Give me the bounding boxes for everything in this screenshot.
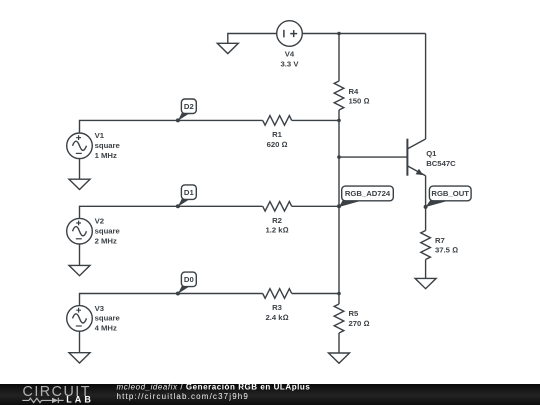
svg-text:D2: D2 [184,102,194,111]
svg-text:R3: R3 [272,303,282,312]
svg-text:square: square [95,141,121,150]
svg-text:37.5 Ω: 37.5 Ω [435,246,458,255]
wire (top rail down to R4) [338,34,340,82]
svg-text:Q1: Q1 [426,149,437,158]
svg-text:V2: V2 [95,217,104,226]
node RGB_AD724 (flag on bus) [337,186,393,208]
wire (V2 to ground) [79,244,81,265]
node junction (base tap) [337,155,341,159]
ground (top left, for V4) [217,43,238,53]
svg-text:http://circuitlab.com/c37j9h9: http://circuitlab.com/c37j9h9 [117,392,250,401]
svg-text:270 Ω: 270 Ω [349,319,370,328]
node junction (R3 row joins bus) [337,292,341,296]
node junction (R2 row joins bus) [337,205,341,209]
resistor R3 [263,289,292,299]
wire (R5 to ground) [338,333,340,353]
voltage source V4 [277,21,303,47]
svg-text:V3: V3 [95,304,104,313]
ground (below V2) [69,265,90,275]
node D0 (flag on row 3) [176,272,196,295]
footer bar [0,384,540,405]
wire (vertical bus x=339) [338,120,340,304]
svg-text:BC547C: BC547C [426,159,456,168]
svg-text:V1: V1 [95,131,105,140]
node RGB_OUT (flag on emitter wire) [424,186,472,209]
svg-text:2.4 kΩ: 2.4 kΩ [265,313,288,322]
wire (R7 to ground) [425,260,427,279]
wire (emitter down to R7) [425,176,427,231]
voltage source V2 [67,218,93,244]
voltage source V3 [67,306,93,332]
ground (below V1) [69,179,90,189]
svg-text:2 MHz: 2 MHz [95,236,117,245]
svg-text:D0: D0 [184,275,194,284]
resistor R4 [334,81,344,110]
svg-text:RGB_OUT: RGB_OUT [431,189,469,198]
svg-text:mcleod_ideafix / Generación RG: mcleod_ideafix / Generación RGB en ULApl… [117,383,311,392]
wire (row 2: V2 to R2) [80,206,263,218]
wire (R4 to node) [338,110,340,120]
svg-text:3.3 V: 3.3 V [281,59,300,68]
svg-text:R4: R4 [349,87,360,96]
ground (below R5) [329,353,350,363]
svg-text:R7: R7 [435,236,445,245]
wire (V3 to ground) [79,331,81,353]
transistor Q1 [407,139,425,176]
svg-text:R1: R1 [272,130,283,139]
svg-text:LAB: LAB [66,395,94,405]
resistor R5 [334,304,344,333]
svg-text:4 MHz: 4 MHz [95,324,117,333]
resistor R1 [263,116,292,126]
node junction (top rail / R4) [337,32,341,36]
wire (row 1: V1 to R1) [80,120,263,133]
wire (R1 to bus) [292,119,339,121]
wire (row 3: V3 to R3) [80,294,263,306]
svg-text:R5: R5 [349,309,360,318]
svg-text:D1: D1 [184,188,195,197]
node D1 (flag on row 2) [176,185,196,208]
ground (below V3) [69,353,90,363]
wire (base wire to Q1) [339,156,407,158]
node junction (R1 row joins bus) [337,119,341,123]
wire (V1 to ground) [79,159,81,180]
svg-text:1.2 kΩ: 1.2 kΩ [265,226,288,235]
svg-text:RGB_AD724: RGB_AD724 [345,189,391,198]
wire (R2 to bus) [292,205,339,207]
wire (collector up to top rail) [425,34,427,140]
svg-text:square: square [95,227,121,236]
wire (V4 to top-right corner) [302,33,425,35]
ground (below R7) [415,278,436,288]
svg-text:square: square [95,314,121,323]
CircuitLab logo resistor-diode mark [22,398,63,403]
svg-text:R2: R2 [272,216,282,225]
wire (ground to V4) [228,34,277,44]
node D2 (flag on row 1) [176,99,196,122]
svg-text:620 Ω: 620 Ω [267,140,288,149]
voltage source V1 [67,133,93,159]
svg-text:1 MHz: 1 MHz [95,151,117,160]
resistor R7 [421,231,431,260]
svg-text:150 Ω: 150 Ω [349,97,370,106]
resistor R2 [263,202,292,212]
svg-text:V4: V4 [285,50,295,59]
wire (R3 to bus) [292,293,339,295]
